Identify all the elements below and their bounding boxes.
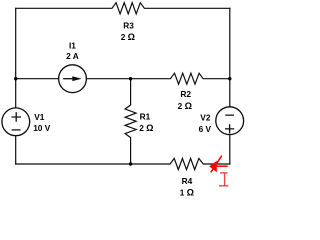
svg-text:R1: R1 bbox=[140, 112, 151, 122]
svg-text:2 Ω: 2 Ω bbox=[178, 101, 192, 111]
svg-text:V2: V2 bbox=[200, 113, 211, 123]
svg-text:2 Ω: 2 Ω bbox=[139, 123, 153, 133]
svg-text:R4: R4 bbox=[182, 176, 193, 186]
svg-text:R3: R3 bbox=[123, 21, 134, 31]
svg-text:R2: R2 bbox=[180, 89, 191, 99]
svg-text:1 Ω: 1 Ω bbox=[180, 188, 194, 198]
svg-text:6 V: 6 V bbox=[199, 124, 212, 134]
svg-text:2 Ω: 2 Ω bbox=[121, 32, 135, 42]
svg-text:I1: I1 bbox=[69, 41, 76, 51]
svg-text:10 V: 10 V bbox=[33, 123, 51, 133]
svg-text:2 A: 2 A bbox=[66, 51, 79, 61]
svg-text:V1: V1 bbox=[34, 112, 45, 122]
